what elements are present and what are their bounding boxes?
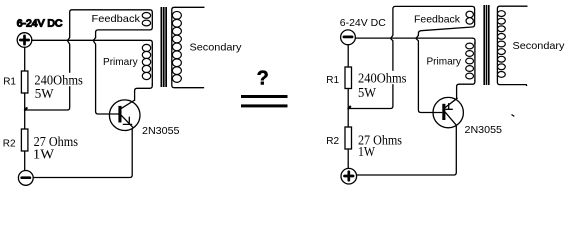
wire: base drive descender (left) <box>93 41 118 114</box>
svg-text:Primary: Primary <box>427 57 462 68</box>
wire: BT2- to supply rail (right) <box>356 37 473 39</box>
svg-text:R2: R2 <box>3 138 16 149</box>
svg-text:5W: 5W <box>35 86 54 101</box>
secondary coil loops (left) <box>172 11 181 82</box>
wire: R1/R2 node riser to rail (left) <box>25 41 70 110</box>
svg-text:1W: 1W <box>33 147 55 162</box>
svg-text:Feedback: Feedback <box>414 15 461 26</box>
wire: R1 to R2 (right) <box>347 89 349 128</box>
transformer T2 primary winding coil (right) <box>466 43 474 79</box>
wire: base drive descender (right) <box>416 39 442 113</box>
svg-text:Feedback: Feedback <box>92 14 141 25</box>
wire: collector riser to primary bottom (right) <box>457 80 475 98</box>
resistor R2 body (right) <box>345 127 352 149</box>
wire: feedback bottom hook to rail junction (right) <box>416 35 418 38</box>
battery BT2 positive terminal (right bottom) <box>341 168 357 184</box>
svg-text:240Ohms: 240Ohms <box>358 71 407 86</box>
resistor R1 body (right) <box>345 67 352 89</box>
svg-text:1W: 1W <box>358 144 375 159</box>
wire: R1 to R2 (left) <box>24 93 26 129</box>
value label 240Ohms 5W (right) <box>357 71 408 101</box>
battery BT2 negative terminal (right top) <box>341 30 356 45</box>
transformer T1 feedback winding coil (left) <box>142 13 150 26</box>
wire: BT2- down to R1 (right) <box>347 45 349 67</box>
transformer T2 core (right) <box>483 5 489 85</box>
equals sign bar 2 <box>241 104 288 107</box>
svg-text:Secondary: Secondary <box>513 41 566 52</box>
resistor R1 body (left) <box>21 71 28 93</box>
equals sign bar 1 <box>241 95 288 98</box>
resistor R2 body (left) <box>21 129 28 151</box>
wire: BT1+ down to R1 (left) <box>24 47 26 71</box>
wire: R2 to BT1 negative (left) <box>24 151 26 171</box>
wire: feedback top lead (right) <box>391 6 475 38</box>
junction node N1 (left) <box>25 108 27 110</box>
stray tick mark <box>512 115 515 117</box>
wire: positive return to emitter (right) <box>357 126 457 175</box>
junction node N2 (right) <box>348 107 350 109</box>
battery BT1 positive terminal <box>17 33 32 48</box>
svg-text:5W: 5W <box>358 85 377 100</box>
wire: R1/R2 node riser to rail (right) <box>349 39 393 109</box>
svg-text:R1: R1 <box>326 75 339 86</box>
svg-text:R2: R2 <box>326 136 339 147</box>
wire: BT1+ to supply rail (left) <box>32 39 150 41</box>
svg-text:6-24V DC: 6-24V DC <box>340 18 387 29</box>
transformer T2 secondary winding (right) <box>497 6 527 85</box>
wire: rail corner into primary top (left) <box>150 40 152 46</box>
svg-text:Secondary: Secondary <box>190 43 243 54</box>
wire: feedback top lead (left) <box>68 10 153 41</box>
svg-text:6-24V DC: 6-24V DC <box>17 19 63 30</box>
transistor Q1 2N3055 (left) <box>109 100 140 131</box>
wire: primary right side (left) <box>151 44 153 85</box>
battery BT1 negative terminal <box>18 171 33 186</box>
wire: negative return to emitter (left) <box>33 129 132 178</box>
transformer T1 primary winding coil (left) <box>142 44 150 79</box>
wire: feedback bottom lead hook to rail junction (left) <box>93 38 95 41</box>
transistor Q2 2N3055 (right) <box>433 97 463 127</box>
secondary coil loops (right) <box>498 11 506 78</box>
value label 240Ohms 5W (left) <box>34 73 85 101</box>
svg-text:?: ? <box>257 68 269 90</box>
svg-text:Primary: Primary <box>103 57 138 68</box>
value label 27 Ohms 1W (left) <box>33 134 79 161</box>
svg-text:2N3055: 2N3055 <box>142 126 180 137</box>
transformer T1 secondary winding (left) <box>172 7 204 87</box>
wire: R2 to BT2 positive (right) <box>347 149 349 168</box>
transformer T1 core (left) <box>161 7 168 87</box>
svg-text:2N3055: 2N3055 <box>465 125 503 136</box>
svg-text:R1: R1 <box>3 76 16 87</box>
wire: primary right side (right) <box>474 42 476 81</box>
value label 27 Ohms 1W (right) <box>357 133 403 160</box>
transformer T2 feedback winding coil (right) <box>466 11 473 24</box>
wire: collector riser to primary bottom (left) <box>135 84 153 100</box>
wire: rail corner into primary top (right) <box>473 38 476 44</box>
